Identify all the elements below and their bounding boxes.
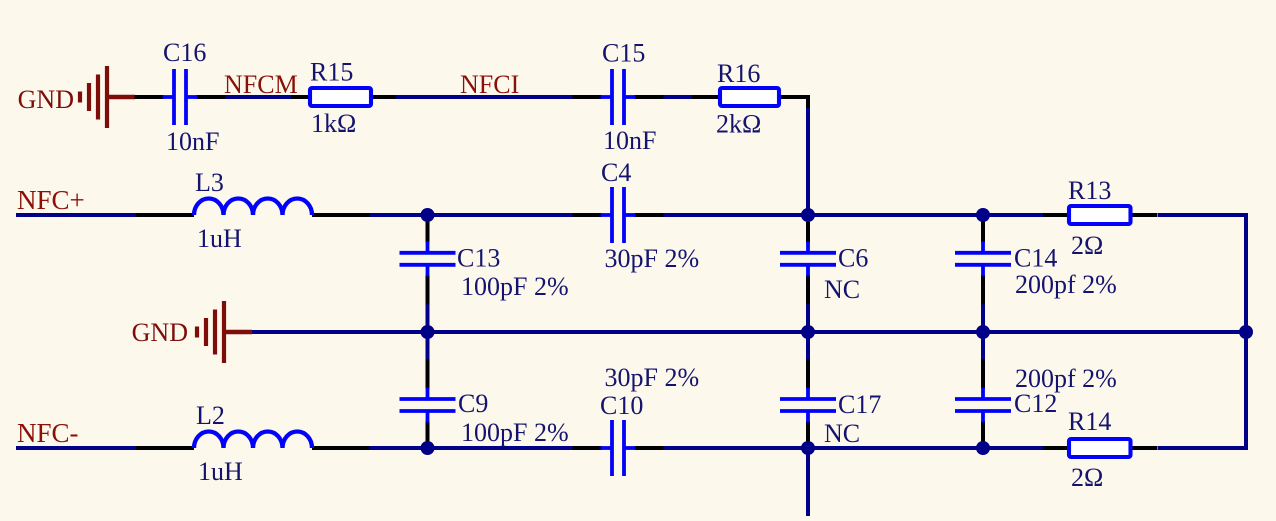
resistor R14 (1043, 407, 1158, 492)
inductor L3 (136, 168, 370, 253)
capacitor C10 (573, 363, 700, 476)
wire R16 output vertical (806, 108, 810, 215)
resistor R15 (291, 58, 396, 139)
wire NFC- bus (662, 446, 1043, 450)
wire NFC+ bus node A to R13 (662, 213, 1043, 217)
capacitor C4 (573, 158, 700, 273)
junction rail/C6-C17 (801, 325, 815, 339)
wire L3 to node A (370, 213, 574, 217)
svg-text:2kΩ: 2kΩ (716, 110, 761, 139)
wire C15 to R16 (663, 95, 692, 99)
svg-text:2Ω: 2Ω (1071, 231, 1103, 260)
svg-text:100pF 2%: 100pF 2% (461, 272, 569, 301)
svg-text:R16: R16 (717, 59, 760, 88)
wire column C mid (981, 302, 985, 362)
capacitor C9 (400, 360, 569, 451)
wire column A mid (426, 302, 430, 362)
svg-text:C9: C9 (458, 389, 488, 418)
inductor L2 (136, 401, 370, 486)
junction node A (NFC+/C13) (421, 208, 435, 222)
net label NFC- (17, 418, 79, 448)
svg-text:GND: GND (18, 85, 74, 114)
capacitor C15 (573, 39, 664, 156)
wire GND1 to C16 net (225, 95, 292, 99)
wire NFC- entry (16, 446, 136, 450)
svg-text:2Ω: 2Ω (1071, 463, 1103, 492)
svg-text:NC: NC (824, 419, 860, 448)
junction node D (NFC-/C9) (421, 441, 435, 455)
svg-text:1uH: 1uH (197, 224, 242, 253)
wire R13 to right corner (1158, 213, 1248, 217)
capacitor C14 (955, 213, 1117, 304)
junction rail/C14-C12 (976, 325, 990, 339)
svg-text:C4: C4 (601, 158, 631, 187)
resistor R13 (1043, 176, 1158, 260)
junction node E (NFC-/C17) (801, 441, 815, 455)
svg-text:NFCI: NFCI (460, 70, 519, 99)
capacitor C16 (135, 38, 226, 156)
net label NFC+ (17, 185, 85, 215)
svg-text:C16: C16 (163, 38, 206, 67)
svg-text:1uH: 1uH (198, 457, 243, 486)
svg-text:10nF: 10nF (603, 126, 656, 155)
wire R14 to right corner (1158, 446, 1248, 450)
net label NFCI (460, 70, 519, 99)
svg-text:R15: R15 (310, 58, 353, 87)
svg-text:C13: C13 (457, 244, 500, 273)
svg-text:NFCM: NFCM (224, 70, 298, 99)
svg-text:L2: L2 (196, 401, 225, 430)
capacitor C13 (400, 213, 569, 304)
ground GND1 (18, 66, 135, 128)
svg-text:C15: C15 (602, 39, 645, 68)
wire ground rail (251, 330, 1246, 334)
svg-text:200pf 2%: 200pf 2% (1015, 364, 1117, 393)
wire L2 to node D (370, 446, 574, 450)
ground GND2 (132, 301, 252, 363)
svg-text:C10: C10 (600, 391, 643, 420)
net label NFCM (224, 70, 298, 99)
svg-text:R14: R14 (1068, 407, 1111, 436)
svg-text:NC: NC (824, 275, 860, 304)
svg-text:NFC+: NFC+ (17, 185, 85, 215)
wire NFC+ entry (16, 213, 136, 217)
svg-text:30pF 2%: 30pF 2% (605, 363, 700, 392)
capacitor C12 (955, 360, 1117, 451)
wire right vertical (1244, 213, 1248, 450)
svg-text:30pF 2%: 30pF 2% (605, 244, 700, 273)
svg-text:NFC-: NFC- (17, 418, 79, 448)
wire column B bottom stub (806, 448, 810, 516)
resistor R16 (692, 59, 808, 139)
junction rail/right edge (1239, 325, 1253, 339)
svg-text:100pF 2%: 100pF 2% (461, 418, 569, 447)
junction node C (NFC+/C14) (976, 208, 990, 222)
svg-text:C12: C12 (1014, 389, 1057, 418)
svg-text:GND: GND (132, 318, 188, 347)
svg-text:200pf 2%: 200pf 2% (1015, 270, 1117, 299)
wire NFCM net R15 to C15 (396, 95, 573, 99)
junction rail/C13-C9 (421, 325, 435, 339)
svg-text:C14: C14 (1014, 244, 1057, 273)
junction node F (NFC-/C12) (976, 441, 990, 455)
svg-text:C6: C6 (838, 244, 868, 273)
capacitor C6 (780, 213, 868, 304)
svg-text:10nF: 10nF (166, 127, 219, 156)
svg-text:C17: C17 (838, 390, 881, 419)
wire column B mid (806, 302, 810, 362)
svg-text:R13: R13 (1068, 176, 1111, 205)
svg-text:1kΩ: 1kΩ (311, 109, 356, 138)
junction node B (NFC+/C6/R16) (801, 208, 815, 222)
svg-text:L3: L3 (195, 168, 224, 197)
capacitor C17 (780, 360, 881, 451)
